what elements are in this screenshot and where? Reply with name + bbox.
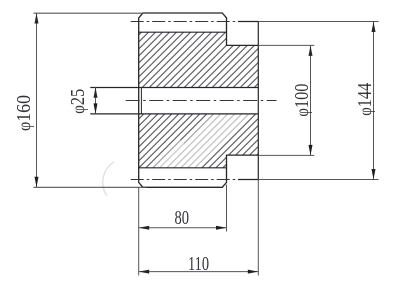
- dim line 80: [139, 227, 227, 229]
- dim line phi160: [36, 13, 38, 187]
- bore line top: [90, 87, 258, 89]
- pitch dash-dot top: [131, 21, 236, 23]
- ext line phi144 top: [258, 21, 378, 23]
- hatch hub upper: [227, 45, 259, 87]
- ext line 110 right: [257, 180, 259, 276]
- svg-text:φ25: φ25: [67, 89, 89, 114]
- ext line 80/110 left: [138, 187, 140, 275]
- dim line phi25: [95, 87, 97, 114]
- dim line phi100: [310, 45, 312, 155]
- pitch dash-dot bottom: [131, 179, 236, 181]
- watermark white streak 2: [147, 138, 185, 176]
- svg-text:φ144: φ144: [354, 83, 376, 116]
- ext line phi100 bottom: [258, 154, 314, 156]
- svg-text:φ100: φ100: [291, 84, 313, 117]
- watermark gray arc: [103, 162, 114, 196]
- svg-text:80: 80: [174, 207, 189, 229]
- dim line 110: [139, 271, 259, 273]
- ext line phi144 bottom: [258, 179, 378, 181]
- root line top: [139, 31, 227, 33]
- ext line phi160 bottom: [34, 186, 147, 188]
- hub outline phi144: [238, 22, 258, 180]
- center line: [126, 100, 277, 102]
- gear outline phi160: [139, 13, 259, 187]
- hatch gear web lower: [139, 114, 227, 168]
- hatch hub lower: [227, 114, 259, 155]
- bore chamfer line left: [140, 88, 142, 114]
- hatch gear web upper: [139, 32, 227, 87]
- ext line phi160 top: [34, 12, 143, 14]
- ext line 80 right: [226, 185, 228, 232]
- svg-text:110: 110: [188, 253, 209, 275]
- dim line phi144: [373, 22, 375, 180]
- watermark white swath: [158, 86, 261, 189]
- ext line phi100 top: [258, 44, 314, 46]
- root line bottom: [139, 167, 227, 169]
- svg-text:φ160: φ160: [13, 95, 35, 131]
- bore line bottom: [90, 113, 258, 115]
